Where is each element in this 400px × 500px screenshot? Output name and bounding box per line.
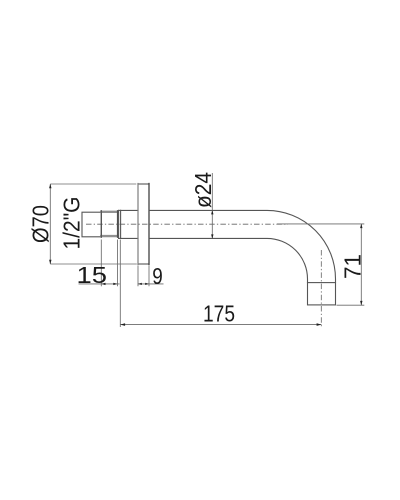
svg-text:ø24: ø24: [190, 172, 216, 208]
svg-text:71: 71: [340, 254, 366, 279]
svg-text:1/2"G: 1/2"G: [58, 197, 84, 250]
svg-text:15: 15: [77, 262, 108, 288]
svg-text:175: 175: [203, 301, 235, 327]
svg-text:Ø70: Ø70: [28, 205, 54, 243]
svg-text:9: 9: [152, 263, 163, 289]
